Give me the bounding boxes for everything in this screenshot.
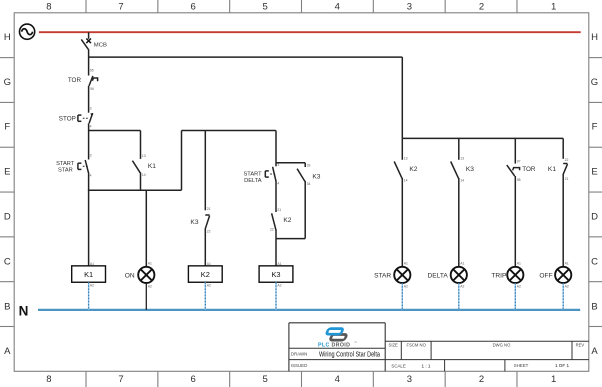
svg-text:A2: A2 [517, 285, 521, 289]
svg-text:21: 21 [565, 177, 569, 181]
svg-text:H: H [591, 32, 598, 43]
svg-text:13: 13 [404, 156, 408, 160]
svg-text:33: 33 [307, 164, 311, 168]
svg-text:7: 7 [118, 2, 123, 13]
svg-text:ISSUED: ISSUED [291, 363, 307, 368]
svg-text:MCB: MCB [94, 42, 107, 48]
svg-text:TOR: TOR [68, 77, 82, 84]
svg-text:REV: REV [576, 342, 585, 347]
svg-text:G: G [591, 77, 598, 88]
svg-text:N: N [19, 304, 29, 319]
svg-text:2: 2 [479, 2, 484, 13]
svg-text:PLC DROID: PLC DROID [318, 343, 350, 349]
svg-text:14: 14 [404, 179, 408, 183]
svg-text:6: 6 [190, 2, 195, 13]
svg-text:A2: A2 [565, 285, 569, 289]
svg-text:K2: K2 [283, 217, 291, 224]
svg-text:1 : 1: 1 : 1 [422, 363, 431, 368]
svg-text:22: 22 [207, 229, 211, 233]
svg-text:6: 6 [190, 374, 195, 385]
svg-text:K1: K1 [84, 270, 93, 279]
svg-text:START: START [243, 171, 262, 177]
svg-text:STAR: STAR [374, 272, 391, 279]
svg-text:96: 96 [90, 87, 94, 91]
svg-text:F: F [592, 122, 598, 133]
svg-text:3: 3 [90, 106, 92, 110]
svg-text:97: 97 [517, 159, 521, 163]
svg-text:21: 21 [207, 207, 211, 211]
svg-text:13: 13 [460, 156, 464, 160]
svg-text:1: 1 [551, 2, 556, 13]
svg-text:4: 4 [335, 374, 340, 385]
svg-text:DWG NO: DWG NO [493, 342, 511, 347]
svg-text:1: 1 [551, 374, 556, 385]
svg-text:C: C [591, 256, 598, 267]
svg-text:K1: K1 [548, 166, 556, 173]
svg-text:B: B [4, 301, 10, 312]
svg-text:D: D [591, 212, 598, 223]
svg-text:3: 3 [407, 374, 412, 385]
svg-text:A1: A1 [148, 262, 152, 266]
svg-text:TRIP: TRIP [491, 272, 507, 279]
svg-text:H: H [4, 32, 11, 43]
svg-text:22: 22 [270, 227, 274, 231]
svg-text:K2: K2 [409, 166, 417, 173]
svg-text:4: 4 [277, 182, 279, 186]
svg-text:A2: A2 [207, 284, 211, 288]
svg-text:A1: A1 [460, 262, 464, 266]
svg-text:3: 3 [407, 2, 412, 13]
svg-text:3: 3 [90, 153, 92, 157]
svg-text:Wiring Control Star Delta: Wiring Control Star Delta [319, 352, 380, 359]
svg-text:DRAWN: DRAWN [291, 351, 307, 356]
svg-text:K3: K3 [466, 166, 474, 173]
svg-text:13: 13 [142, 154, 146, 158]
svg-text:ON: ON [125, 272, 135, 279]
svg-text:SHEET: SHEET [514, 363, 529, 368]
svg-text:C: C [4, 256, 11, 267]
svg-text:1 OF 1: 1 OF 1 [555, 363, 569, 368]
svg-text:SCALE: SCALE [391, 363, 405, 368]
svg-text:K3: K3 [312, 174, 320, 181]
svg-text:A2: A2 [90, 284, 94, 288]
svg-text:G: G [4, 77, 11, 88]
svg-text:5: 5 [263, 374, 268, 385]
svg-text:E: E [591, 167, 597, 178]
svg-text:14: 14 [460, 179, 464, 183]
svg-text:TOR: TOR [522, 166, 536, 173]
svg-text:D: D [4, 212, 11, 223]
svg-text:E: E [4, 167, 10, 178]
svg-text:A2: A2 [404, 285, 408, 289]
svg-text:A1: A1 [404, 262, 408, 266]
svg-text:8: 8 [46, 374, 51, 385]
svg-text:3: 3 [277, 163, 279, 167]
svg-text:DELTA: DELTA [244, 178, 262, 184]
svg-text:DELTA: DELTA [428, 272, 449, 279]
svg-text:22: 22 [565, 158, 569, 162]
svg-text:A2: A2 [148, 285, 152, 289]
svg-text:START: START [56, 161, 75, 167]
svg-text:98: 98 [517, 178, 521, 182]
svg-text:A2: A2 [460, 285, 464, 289]
svg-text:™: ™ [354, 340, 357, 344]
svg-text:STAR: STAR [58, 168, 73, 174]
svg-text:FSCM NO: FSCM NO [407, 342, 427, 347]
svg-text:4: 4 [335, 2, 340, 13]
svg-text:A: A [591, 346, 598, 357]
svg-text:A1: A1 [565, 262, 569, 266]
svg-text:A1: A1 [517, 262, 521, 266]
svg-text:4: 4 [90, 174, 92, 178]
svg-text:OFF: OFF [539, 272, 552, 279]
svg-text:A2: A2 [277, 284, 281, 288]
svg-text:K3: K3 [190, 219, 198, 226]
svg-text:2: 2 [479, 374, 484, 385]
svg-text:95: 95 [90, 69, 94, 73]
svg-text:K1: K1 [148, 163, 156, 170]
svg-text:K3: K3 [271, 270, 280, 279]
svg-text:21: 21 [277, 208, 281, 212]
svg-text:F: F [4, 122, 10, 133]
svg-text:STOP: STOP [59, 116, 76, 123]
svg-text:SIZE: SIZE [389, 342, 399, 347]
svg-text:4: 4 [90, 125, 92, 129]
svg-text:B: B [591, 301, 597, 312]
svg-text:5: 5 [263, 2, 268, 13]
svg-text:K2: K2 [201, 270, 210, 279]
svg-text:14: 14 [142, 173, 146, 177]
svg-text:34: 34 [307, 182, 311, 186]
svg-text:8: 8 [46, 2, 51, 13]
svg-text:7: 7 [118, 374, 123, 385]
svg-text:A: A [4, 346, 11, 357]
